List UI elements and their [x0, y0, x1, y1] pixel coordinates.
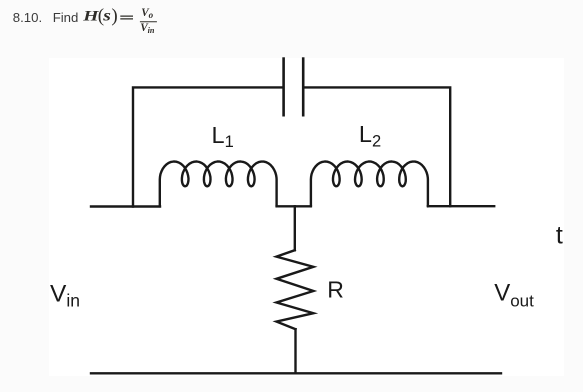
svg-text:Vout: Vout — [494, 279, 534, 310]
fraction bar — [140, 21, 157, 23]
wire: bottom rail — [91, 372, 501, 374]
wire: resistor bottom lead — [294, 329, 296, 373]
capacitor C1 right plate — [302, 59, 305, 116]
capacitor C1 left plate — [282, 59, 285, 116]
svg-text:Vin: Vin — [140, 22, 155, 35]
inductor L2 — [311, 162, 428, 207]
wire: left input lead — [91, 205, 160, 207]
resistor R zigzag — [277, 250, 314, 329]
svg-text:Find: Find — [53, 10, 79, 25]
svg-text:L2: L2 — [359, 121, 381, 150]
inductor L1 — [160, 162, 277, 207]
wire: junction between L1 and L2 — [277, 205, 311, 207]
svg-text:Vo: Vo — [141, 7, 153, 20]
svg-text:R: R — [327, 277, 344, 303]
svg-text:t: t — [556, 221, 563, 249]
svg-text:8.10.: 8.10. — [13, 10, 42, 25]
wire: top rail right segment — [304, 87, 450, 206]
svg-text:L1: L1 — [212, 122, 234, 151]
wire: resistor top lead — [294, 206, 296, 250]
wire: right output lead — [428, 205, 494, 207]
wire: top rail left segment — [133, 87, 282, 206]
svg-text:H: H — [82, 8, 99, 24]
equals sign — [120, 16, 133, 19]
figure white background — [49, 58, 564, 376]
svg-text:s: s — [102, 6, 111, 24]
svg-text:Vin: Vin — [50, 281, 80, 311]
svg-text:): ) — [111, 5, 117, 26]
